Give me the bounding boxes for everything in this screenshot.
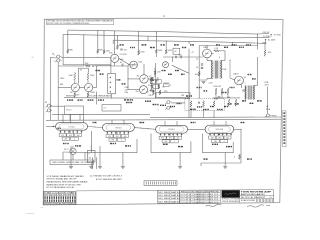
svg-text:WITH NO SIGNAL AND VIB OFF: WITH NO SIGNAL AND VIB OFF — [47, 178, 78, 181]
svg-text:CO 4117 CHANGED RES 6-9: CO 4117 CHANGED RES 6-9 — [180, 201, 218, 204]
cap near TX2 — [242, 90, 245, 91]
wire v3 plate — [143, 64, 145, 75]
ground symbol E — [98, 166, 102, 168]
pill1 arrow — [53, 126, 54, 128]
value box V10 c — [224, 136, 231, 139]
ground tx1 — [202, 82, 206, 84]
value label smudge 13 — [217, 109, 223, 110]
svg-text:V1 7025: V1 7025 — [120, 54, 127, 56]
pin stub V9.4 — [172, 133, 174, 136]
plate resistor 100K — [138, 50, 140, 55]
selector arrow 4 — [109, 91, 110, 93]
svg-text:68K: 68K — [60, 84, 64, 86]
title tick ruler — [263, 199, 265, 202]
junction right v col — [229, 60, 230, 61]
strip text mark — [283, 121, 285, 123]
reverb transformer TX1 secondary — [220, 61, 223, 79]
control box ch1 — [65, 106, 84, 115]
pin number label V8.1 — [107, 132, 108, 133]
heater bus lower wire — [46, 119, 281, 120]
svg-text:1K5: 1K5 — [218, 137, 221, 139]
svg-text:250: 250 — [136, 91, 139, 93]
title rule 1 — [240, 194, 274, 196]
pin number label V7.3 — [68, 131, 69, 132]
wire pill3-4 — [188, 128, 206, 130]
svg-text:68K: 68K — [69, 50, 73, 52]
junction pill feed — [70, 114, 71, 115]
terminal strip tick — [166, 182, 168, 185]
bias cap — [218, 97, 221, 98]
svg-text:220K 1W: 220K 1W — [214, 86, 222, 88]
junction strip5 — [257, 43, 258, 44]
value box V8 e — [118, 138, 126, 141]
wire dashed box drop 3 — [213, 110, 215, 117]
svg-text:470: 470 — [161, 138, 164, 140]
svg-text:BRIGHT: BRIGHT — [66, 95, 75, 97]
strip text mark — [283, 142, 285, 144]
wire node link — [264, 40, 267, 44]
ground drop C wire — [224, 153, 226, 166]
heater bus upper wire — [52, 113, 150, 115]
value box V8 d — [109, 138, 117, 141]
svg-text:IN: IN — [45, 102, 47, 104]
pin number label V7.5 — [77, 131, 78, 132]
svg-text:100K: 100K — [69, 75, 74, 77]
notes box — [46, 19, 113, 24]
junction grid node — [67, 57, 68, 58]
svg-text:V7 6L6: V7 6L6 — [68, 126, 75, 128]
svg-text:TO RVB IN: TO RVB IN — [263, 36, 273, 38]
terminal strip tick — [154, 182, 156, 185]
value label smudge 8 — [186, 95, 192, 96]
wire pill2-3 — [134, 128, 155, 130]
heater bus right wire — [150, 116, 281, 119]
output transformer TX2 primary — [244, 86, 247, 100]
sheet border frame — [43, 18, 283, 205]
junction input node — [97, 57, 98, 58]
junction bus B — [83, 34, 84, 35]
triode V1B envelope — [130, 61, 138, 69]
value label smudge 5 — [160, 105, 166, 106]
svg-text:470: 470 — [211, 137, 214, 139]
wire pilot up — [72, 146, 74, 148]
resistor in box 1 — [190, 101, 192, 108]
svg-text:V10 6L6: V10 6L6 — [216, 129, 224, 131]
rvb arrow — [266, 106, 267, 108]
cap driver2 — [181, 56, 182, 59]
pin stub V7.5 — [76, 130, 78, 133]
strip text mark — [283, 118, 285, 120]
value label smudge 29 — [100, 73, 104, 74]
svg-text:UNIT: UNIT — [265, 85, 270, 87]
tube chart column text — [58, 196, 59, 199]
strip text mark — [283, 127, 285, 129]
value label smudge 54 — [191, 122, 196, 123]
ground symbol A — [121, 166, 125, 168]
svg-text:D1: D1 — [196, 67, 198, 69]
terminal strip tick — [175, 182, 177, 185]
value label smudge 61 — [178, 146, 183, 147]
terminal strip tick — [156, 182, 158, 185]
svg-text:250K: 250K — [91, 92, 96, 94]
svg-text:100K: 100K — [158, 50, 163, 52]
value box V9 a — [159, 136, 166, 139]
strip text mark — [283, 139, 285, 141]
svg-text:2: 2 — [158, 110, 159, 112]
value label smudge 3 — [145, 101, 151, 102]
wire TX2 out — [253, 85, 257, 87]
ground drop D wire — [70, 146, 72, 166]
wire mid col 172 — [172, 57, 174, 62]
strip text mark — [283, 133, 285, 135]
wire jack3 — [52, 105, 65, 107]
output transformer TX2 secondary — [252, 86, 255, 100]
TX2 body shade — [244, 86, 255, 100]
wire dashed box drop 1 — [190, 110, 192, 117]
B+ bus C wire — [113, 40, 266, 43]
svg-text:VOLUME TREBLE BASS: VOLUME TREBLE BASS — [89, 94, 112, 97]
terminal node B+2 — [265, 39, 266, 40]
wire jack column outer — [50, 57, 52, 120]
driver cap — [176, 56, 177, 59]
wire bias drop 2 — [221, 95, 223, 98]
svg-text:1: 1 — [54, 55, 55, 57]
osc cap box c — [156, 80, 161, 83]
svg-text:4: 4 — [163, 14, 165, 18]
svg-text:1M: 1M — [137, 76, 140, 78]
tube chart column text — [63, 196, 64, 199]
selector arrow 2 — [109, 81, 110, 83]
rail D drop wire — [198, 46, 200, 50]
wire pill2 top stub b — [123, 120, 125, 124]
cathode arrow V7 — [69, 131, 70, 133]
title tick ruler — [266, 199, 268, 202]
pin number label V9.3 — [168, 134, 169, 135]
triode V1A envelope — [111, 54, 119, 62]
cathode resistor V2B — [87, 92, 89, 97]
svg-text:2.2K: 2.2K — [215, 48, 219, 50]
value box V9 b — [167, 136, 174, 139]
cathode arrow V8 — [116, 132, 117, 134]
title tick ruler — [261, 199, 263, 202]
terminal strip tick — [170, 182, 172, 185]
svg-text:A VOLT READINGS MAY VARY: A VOLT READINGS MAY VARY — [96, 178, 123, 181]
pin number label V10.4 — [222, 134, 223, 135]
tube chart column text b — [56, 199, 57, 202]
svg-text:25: 25 — [196, 59, 198, 61]
production rule 1 — [180, 194, 221, 196]
driver resistor v — [165, 49, 167, 54]
revision rule 1 — [158, 192, 180, 194]
wire TX1 bottom — [207, 78, 212, 80]
svg-text:100K: 100K — [60, 78, 65, 80]
pin number label V8.3 — [115, 132, 116, 133]
value box V10 e — [220, 140, 228, 143]
value label smudge 28 — [96, 70, 100, 71]
pin number label V10.6 — [230, 134, 231, 135]
wire ch1 loop top — [78, 67, 88, 69]
terminal strip — [144, 181, 177, 186]
wire bus b mid drop — [147, 36, 149, 40]
svg-text:CO 4117 CHANGED RES 6-9: CO 4117 CHANGED RES 6-9 — [180, 193, 218, 196]
svg-text:.003: .003 — [178, 54, 182, 56]
title tick ruler — [267, 199, 269, 202]
svg-text:12AT7: 12AT7 — [203, 46, 208, 49]
svg-text:.02: .02 — [120, 62, 123, 64]
ground drop E wire — [99, 146, 101, 166]
value label smudge 23 — [230, 87, 235, 88]
strip text mark — [283, 130, 285, 132]
terminal node B+1 — [271, 34, 272, 35]
terminal strip tick — [162, 182, 164, 185]
plate resistor V2B — [87, 72, 89, 80]
dashed optional circuit box — [185, 99, 225, 111]
value box V10 a — [209, 136, 216, 139]
right margin note strip — [283, 111, 286, 147]
svg-text:220K: 220K — [157, 72, 162, 74]
revision divider — [169, 190, 171, 203]
svg-text:V1 V2 V3 V4 V5 V6 V7: V1 V2 V3 V4 V5 V6 V7 — [44, 195, 76, 197]
TX2 core 1 — [248, 86, 250, 100]
junction bus C — [166, 40, 167, 41]
reverb transformer TX1 primary — [211, 61, 214, 79]
junction signal c — [127, 65, 128, 66]
junction mid bus c — [155, 98, 156, 99]
wire pill4 out — [234, 128, 241, 130]
terminal strip tick — [173, 182, 175, 185]
selector arrow 3 — [109, 86, 110, 88]
wire 225 col — [224, 51, 226, 61]
wire pill feed 1 — [62, 114, 64, 122]
junction ch2 rail — [83, 64, 84, 65]
selector arrow 1 — [109, 77, 110, 79]
junction 199 rail — [199, 97, 200, 98]
wire link col — [127, 66, 129, 90]
wire 156 down — [155, 54, 157, 57]
wire to footswitch1 — [62, 152, 64, 160]
input wire to grid — [62, 56, 111, 58]
wire driver col — [198, 50, 200, 98]
coupling cap ch mid — [122, 64, 123, 67]
coupling cap — [157, 79, 158, 82]
tube chart column text b — [44, 199, 45, 202]
input jack J4 — [46, 109, 53, 112]
trem cap box 2 — [164, 83, 170, 87]
wire reverb top link — [206, 46, 208, 50]
terminal strip tick — [160, 182, 162, 185]
Fender logo box — [222, 190, 240, 197]
wire grid col 128 — [128, 64, 137, 66]
wire to footswitch2 — [84, 152, 86, 160]
value label smudge 55 — [241, 122, 245, 123]
svg-text:1500: 1500 — [138, 62, 142, 64]
pin number label V10.2 — [214, 134, 215, 135]
wire fuse down — [90, 162, 92, 166]
svg-text:TO RVB: TO RVB — [274, 34, 282, 36]
power tube V10 6L6GC envelope — [205, 125, 234, 133]
junction bus x156 — [156, 31, 157, 32]
wire V1B link — [119, 58, 130, 65]
value label smudge 65 — [204, 158, 208, 159]
bus C right drop wire — [232, 42, 234, 45]
speaker jack — [265, 114, 272, 117]
value label smudge 30 — [67, 99, 73, 100]
pin stub V8.6 — [128, 131, 130, 134]
svg-text:3: 3 — [170, 85, 171, 87]
wire driver out right — [211, 53, 213, 55]
input jack J6 vibrato — [165, 106, 172, 109]
wire v1b out — [111, 65, 128, 67]
svg-text:4 5: 4 5 — [270, 197, 272, 199]
B+ bus B wire — [63, 34, 269, 37]
triode V3B envelope — [140, 86, 148, 94]
value label smudge 26 — [175, 70, 179, 71]
title tick ruler — [260, 199, 262, 202]
ground loop A wire — [91, 131, 137, 153]
junction bus A right — [257, 34, 258, 35]
tremolo resistor b — [159, 90, 161, 95]
tube chart column text b — [61, 199, 62, 202]
wire v2 out col — [96, 66, 98, 88]
tube chart column text b — [72, 199, 73, 202]
diode D1 — [201, 64, 203, 66]
svg-text:1K5: 1K5 — [116, 136, 119, 138]
svg-text:SPKR: SPKR — [272, 116, 278, 118]
svg-text:470: 470 — [108, 136, 111, 138]
value label smudge 53 — [140, 122, 145, 123]
cap box — [173, 48, 180, 54]
ground drop B wire — [179, 153, 181, 166]
value label smudge 24 — [162, 70, 166, 71]
terminal strip tick — [149, 182, 151, 185]
mid ground bus wire — [64, 97, 190, 100]
value label smudge 58 — [110, 143, 116, 144]
input jack J1 — [55, 55, 62, 58]
wire 117 drop — [117, 36, 119, 45]
svg-text:100K: 100K — [90, 75, 95, 77]
tube chart column text b — [47, 199, 48, 202]
svg-text:820: 820 — [76, 95, 79, 97]
svg-text:NO REV DATE: NO REV DATE — [158, 194, 179, 197]
pin number label V9.4 — [172, 134, 173, 135]
wire jack2 branch — [57, 62, 59, 66]
resistor 117 top — [117, 45, 119, 50]
tone capacitor stack box — [108, 73, 116, 93]
mixing resistor 220K — [150, 79, 155, 81]
bus drop wire — [138, 32, 140, 51]
wire plate V2A — [74, 81, 76, 84]
cap at 121 — [120, 49, 123, 50]
value label smudge 38 — [161, 44, 165, 45]
pin stub V9.6 — [181, 133, 183, 136]
value label smudge 45 — [239, 47, 244, 48]
value label smudge 35 — [130, 47, 135, 48]
svg-text:2.2K: 2.2K — [209, 83, 214, 85]
svg-text:2A: 2A — [89, 157, 92, 160]
svg-text:NO REV DATE: NO REV DATE — [158, 200, 179, 203]
svg-text:GROUND SW FUSE 117VAC: GROUND SW FUSE 117VAC — [52, 161, 92, 164]
ground symbol B — [178, 166, 182, 168]
pin stub V8.4 — [119, 131, 121, 134]
value label smudge 21 — [204, 90, 208, 91]
pin number label V8.4 — [119, 132, 120, 133]
control box ch1b — [102, 105, 121, 112]
wire pot drop 2 — [96, 157, 98, 169]
junction 117 — [117, 35, 118, 36]
ground symbol D — [69, 166, 73, 168]
wire v10 down — [240, 129, 242, 163]
revision table frame — [158, 190, 180, 203]
svg-text:2 2: 2 2 — [104, 107, 108, 109]
svg-text:V1A: V1A — [109, 51, 113, 54]
svg-text:.1: .1 — [121, 139, 122, 141]
resistor in box 2 — [203, 101, 205, 108]
svg-text:.02: .02 — [174, 51, 177, 53]
wire pill1-2 — [88, 127, 103, 128]
strip text mark — [283, 115, 285, 117]
svg-text:CO 4117 CHANGED RES 6-9: CO 4117 CHANGED RES 6-9 — [180, 196, 218, 199]
tube chart column text — [51, 196, 52, 199]
revision rule 3 — [158, 199, 180, 201]
junction heater3 — [62, 120, 63, 121]
ground symbol C — [223, 166, 227, 168]
bias resistor 3 — [227, 88, 229, 95]
tube chart column text b — [74, 199, 75, 202]
junction heater — [122, 120, 123, 121]
value label smudge 51 — [58, 128, 61, 129]
svg-text:1M: 1M — [70, 92, 73, 94]
wire driver grid — [163, 56, 203, 58]
tube chart column text b — [54, 199, 55, 202]
value label smudge 4 — [153, 104, 159, 105]
pin number label V8.2 — [111, 132, 112, 133]
svg-text:FENDER MUSICAL INSTRUMENTS: FENDER MUSICAL INSTRUMENTS — [44, 202, 76, 205]
junction bus C right — [232, 42, 233, 43]
tube chart rule2 — [43, 195, 76, 197]
terminal strip tick — [168, 182, 170, 185]
wire plate V2B — [87, 81, 89, 84]
svg-text:.1: .1 — [74, 138, 75, 140]
junction bus B mid — [138, 35, 139, 36]
value box V9 c — [175, 136, 182, 139]
wire pill1 in — [46, 125, 56, 127]
wire right v col — [229, 60, 231, 78]
value label smudge 31 — [78, 99, 83, 100]
value box V7 e — [71, 137, 79, 140]
junction v2 out — [96, 65, 97, 66]
pin stub V8.1 — [107, 131, 109, 134]
wire V2 coupling — [79, 87, 84, 89]
pin stub V7.2 — [64, 130, 66, 133]
triode V2A envelope — [71, 83, 79, 91]
wire left column — [57, 66, 59, 98]
resistor 470ohm right — [264, 49, 266, 56]
tremolo resistor a — [153, 90, 155, 95]
junction gnd C — [225, 152, 226, 153]
junction heater4 — [83, 120, 84, 121]
production rule 3 — [180, 200, 221, 202]
junction pill4 out — [240, 129, 241, 130]
svg-text:.1: .1 — [223, 141, 224, 143]
pin number label V7.4 — [72, 131, 73, 132]
value label smudge 7 — [177, 103, 182, 104]
wire x189 top — [188, 41, 190, 44]
B+ bus A wire — [68, 30, 269, 34]
junction pill link2 — [140, 128, 141, 129]
bus B left drop wire — [62, 34, 64, 64]
value label smudge 10 — [197, 106, 202, 107]
wire pot drop 1 — [92, 157, 94, 169]
